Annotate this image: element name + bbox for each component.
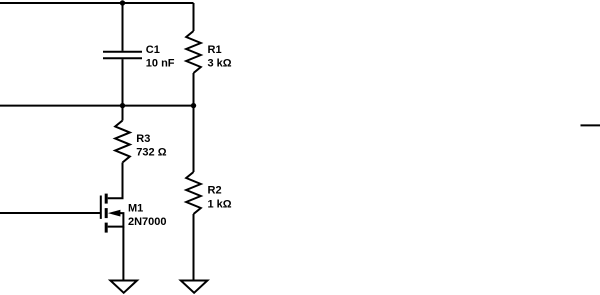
label R2 <box>208 185 222 197</box>
wire: R2 bottom lead to ground <box>193 214 195 280</box>
wire: R3 bottom lead down to drain corner <box>108 163 123 199</box>
svg-text:R1: R1 <box>208 44 222 56</box>
svg-text:1 kΩ: 1 kΩ <box>208 198 232 210</box>
resistor R1 <box>186 31 201 73</box>
value label 3 kOhm <box>208 58 232 70</box>
resistor R2 <box>186 172 201 214</box>
transistor M1 channel drain segment <box>105 194 108 204</box>
wire: middle rail from left edge to R2 <box>0 105 194 107</box>
wire: M1 source lead to ground <box>122 227 124 280</box>
capacitor C1 plates <box>103 52 142 59</box>
label R1 <box>208 44 222 56</box>
wire: R1 top lead from top rail corner <box>193 3 195 31</box>
wire: R1 bottom lead <box>193 73 195 106</box>
resistor R3 <box>115 121 130 163</box>
wire: R2 top lead <box>193 106 195 172</box>
value label 1 kOhm <box>208 198 232 210</box>
ground: under M1 source <box>110 281 137 293</box>
wire: gate lead from left edge <box>0 212 100 214</box>
ground: under R2 <box>181 281 208 293</box>
wire: R3 top lead <box>122 106 124 121</box>
svg-text:2N7000: 2N7000 <box>128 216 167 228</box>
svg-text:R2: R2 <box>208 185 222 197</box>
value label 2N7000 <box>128 216 167 228</box>
transistor M1 channel body segment <box>105 208 108 218</box>
label M1 <box>128 203 143 215</box>
svg-text:10 nF: 10 nF <box>146 58 175 70</box>
value label 732 Ohm <box>136 146 166 158</box>
wire: C1 bottom lead <box>122 59 124 105</box>
wire: C1 top lead <box>122 3 124 51</box>
transistor M1 gate bar <box>100 196 102 219</box>
svg-text:3 kΩ: 3 kΩ <box>208 58 232 70</box>
label C1 <box>146 44 160 56</box>
svg-text:M1: M1 <box>128 203 143 215</box>
junction dot: middle rail / R1-R2 branch <box>191 103 196 108</box>
junction dot: middle rail / C1-R3 branch <box>120 103 125 108</box>
wire: stub at right edge <box>581 124 600 126</box>
label R3 <box>136 133 150 145</box>
transistor M1 channel source segment <box>105 223 108 233</box>
value label 10 nF <box>146 58 175 70</box>
junction dot: top rail / C1 branch <box>120 0 125 5</box>
wire: top rail from left edge to R1 corner <box>0 2 194 4</box>
svg-text:R3: R3 <box>136 133 150 145</box>
svg-text:C1: C1 <box>146 44 160 56</box>
svg-text:732 Ω: 732 Ω <box>136 146 166 158</box>
transistor M1 body arrow <box>108 210 124 227</box>
